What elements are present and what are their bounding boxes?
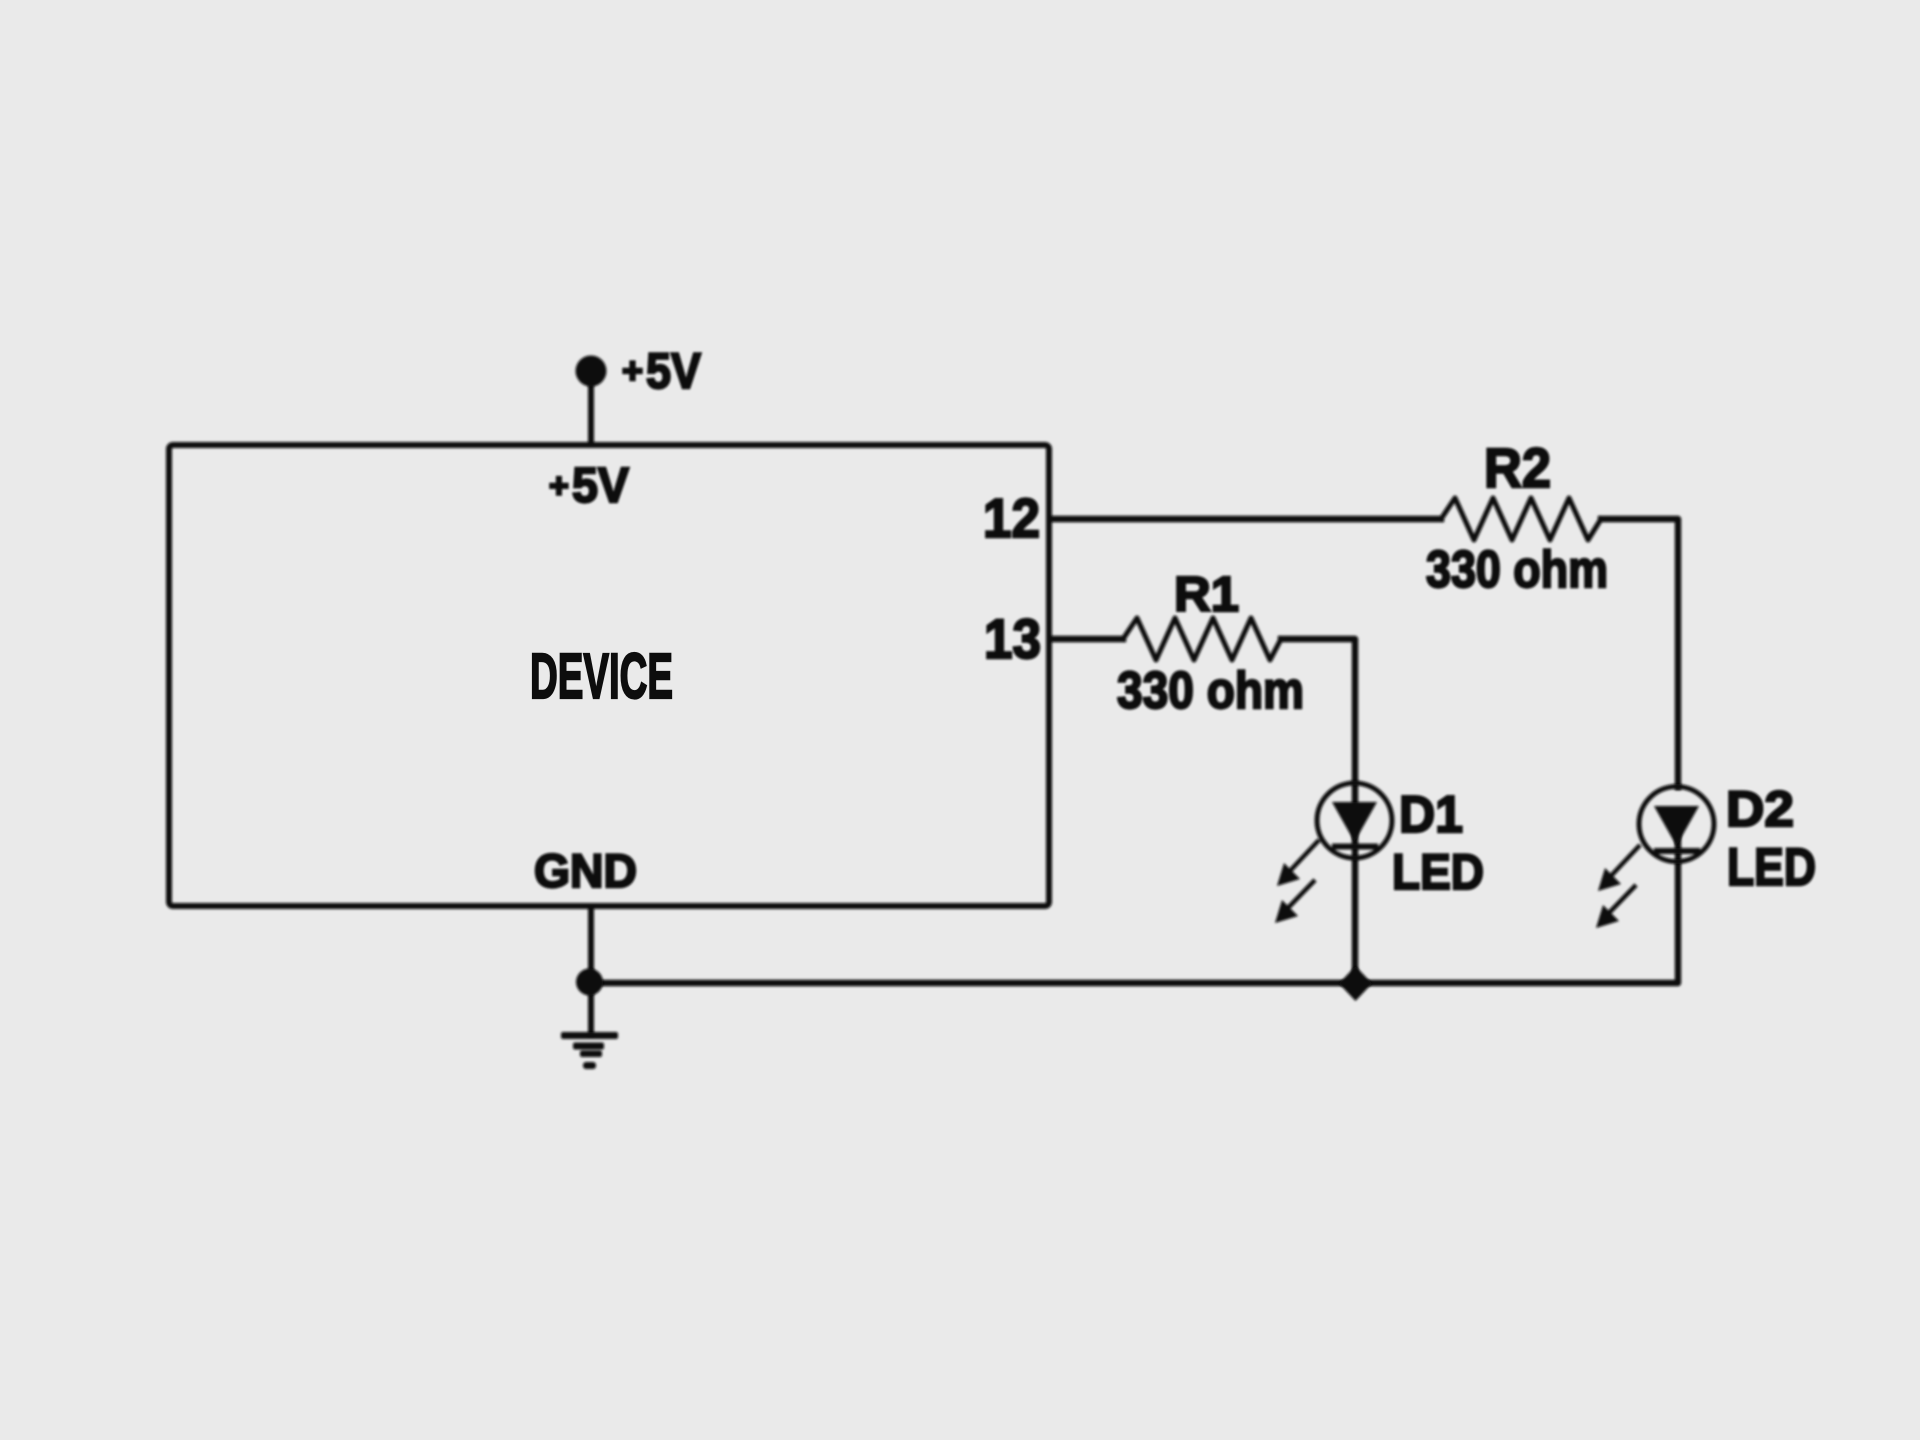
svg-text:GND: GND (534, 844, 637, 897)
svg-text:LED: LED (1727, 838, 1816, 897)
svg-text:5V: 5V (646, 343, 702, 399)
svg-text:330 ohm: 330 ohm (1117, 662, 1304, 720)
svg-text:+: + (549, 467, 569, 505)
svg-text:13: 13 (984, 607, 1041, 670)
svg-text:R1: R1 (1174, 568, 1239, 622)
svg-text:R2: R2 (1484, 436, 1551, 499)
svg-text:D2: D2 (1726, 781, 1794, 837)
svg-text:+: + (622, 350, 643, 391)
svg-text:D1: D1 (1399, 786, 1463, 844)
svg-text:LED: LED (1392, 844, 1484, 900)
svg-text:330 ohm: 330 ohm (1426, 541, 1608, 599)
svg-text:5V: 5V (572, 459, 629, 513)
svg-text:DEVICE: DEVICE (530, 640, 673, 712)
svg-text:12: 12 (983, 487, 1040, 549)
